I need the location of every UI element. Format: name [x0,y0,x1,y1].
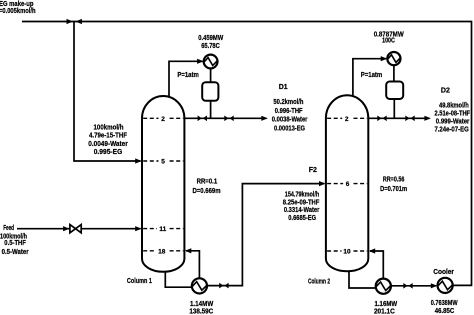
svg-text:201.1C: 201.1C [374,308,395,315]
svg-text:D=0.701m: D=0.701m [380,186,407,193]
svg-text:18: 18 [158,248,166,255]
svg-text:4.79e-15-THF: 4.79e-15-THF [89,132,128,139]
svg-text:0.999-Water: 0.999-Water [436,118,470,125]
svg-text:0.0049-Water: 0.0049-Water [88,141,128,148]
svg-text:Feed: Feed [3,225,14,232]
svg-text:0.996-THF: 0.996-THF [275,108,303,115]
svg-text:8.25e-09-THF: 8.25e-09-THF [283,199,320,206]
svg-text:5: 5 [161,159,165,166]
svg-text:100C: 100C [382,38,395,45]
svg-text:0.0038-Water: 0.0038-Water [272,117,308,124]
svg-text:10: 10 [343,249,351,256]
svg-text:11: 11 [159,226,166,233]
svg-text:F2: F2 [309,167,317,174]
svg-text:0.6685-EG: 0.6685-EG [288,215,316,222]
svg-text:0.5-Water: 0.5-Water [2,249,29,256]
svg-text:0.00013-EG: 0.00013-EG [274,125,305,132]
svg-text:1.14MW: 1.14MW [190,301,214,308]
svg-text:Column 1: Column 1 [127,278,152,285]
svg-text:6: 6 [346,181,350,188]
svg-text:100kmol/h: 100kmol/h [94,124,124,131]
svg-text:154.79kmol/h: 154.79kmol/h [285,192,319,199]
svg-text:46.85C: 46.85C [435,308,454,315]
svg-text:138.59C: 138.59C [189,308,213,315]
svg-text:65.78C: 65.78C [201,43,220,50]
svg-text:0.459MW: 0.459MW [198,35,223,42]
svg-text:2: 2 [161,116,165,123]
svg-text:Column 2: Column 2 [308,278,330,285]
svg-text:7.24e-07-EG: 7.24e-07-EG [434,127,469,134]
svg-text:D=0.669m: D=0.669m [192,188,220,195]
svg-text:2: 2 [345,116,349,123]
svg-text:RR=0.56: RR=0.56 [383,176,405,183]
svg-text:P=1atm: P=1atm [361,72,382,79]
svg-text:D2: D2 [441,88,450,95]
svg-text:0.995-EG: 0.995-EG [94,149,123,156]
svg-text:Cooler: Cooler [433,269,454,276]
svg-text:0.7638MW: 0.7638MW [431,300,458,307]
svg-text:1.16MW: 1.16MW [375,301,398,308]
svg-text:P=1atm: P=1atm [177,72,198,79]
svg-text:=0.005kmol/h: =0.005kmol/h [0,8,36,15]
svg-text:RR=0.1: RR=0.1 [197,178,218,185]
svg-text:0.3314-Water: 0.3314-Water [284,207,320,214]
svg-text:50.2kmol/h: 50.2kmol/h [273,99,303,106]
svg-text:49.8kmol/h: 49.8kmol/h [439,103,469,110]
svg-text:0.5-THF: 0.5-THF [4,240,26,247]
svg-text:D1: D1 [279,84,288,91]
svg-text:2.51e-08-THF: 2.51e-08-THF [435,110,471,117]
